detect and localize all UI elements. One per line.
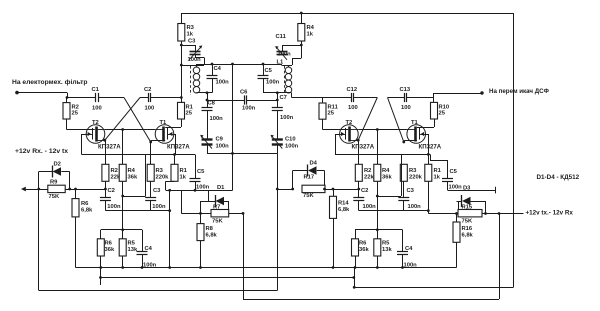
- svg-text:75K: 75K: [303, 193, 314, 199]
- wire: R17 right to bias node: [325, 189, 359, 191]
- wire: T1r gate lead down: [426, 134, 429, 154]
- label R6 36k (right): [359, 241, 369, 254]
- wire: bias cap bottom bus: [105, 210, 169, 212]
- wire: jog down to R7 wire: [181, 190, 183, 213]
- wire: gate bus y=154.5: [82, 154, 196, 156]
- label C13 100: [401, 105, 411, 111]
- node: tap to D4/R17: [276, 188, 279, 191]
- svg-text:36k: 36k: [382, 175, 392, 181]
- label C2 100n (right): [363, 204, 377, 210]
- label R16 6,8k: [462, 226, 474, 239]
- label C5 100n (right): [449, 185, 463, 191]
- capacitor C4 (right bias): [397, 230, 408, 268]
- svg-text:C7: C7: [280, 95, 287, 101]
- svg-text:R5: R5: [382, 241, 390, 247]
- label D4: [310, 161, 318, 167]
- label R4 36k: [128, 168, 138, 181]
- svg-text:R3: R3: [156, 168, 164, 174]
- svg-text:D4: D4: [310, 161, 318, 167]
- wire: C5 right feed: [430, 154, 448, 178]
- svg-text:На перем икач ДСФ: На перем икач ДСФ: [489, 88, 550, 95]
- transistor T2 (КП327А): [86, 125, 105, 144]
- wire: left osc rail segment A: [67, 97, 96, 99]
- capacitor C7: [272, 93, 283, 139]
- wire: right osc rail segment D: [407, 97, 434, 99]
- svg-text:C8: C8: [208, 101, 216, 107]
- node: gate2 tap: [121, 195, 124, 198]
- label R7: [213, 205, 220, 211]
- label C12: [347, 87, 358, 93]
- wire: top supply rail: [181, 13, 513, 15]
- resistor R2 (25): [63, 98, 70, 120]
- svg-text:100n: 100n: [216, 80, 230, 86]
- svg-text:L1: L1: [277, 60, 285, 66]
- wire: right osc rail segment C: [388, 97, 405, 99]
- svg-text:100n: 100n: [266, 80, 280, 86]
- wire: R4-36k right lead up: [377, 130, 379, 165]
- svg-text:C4: C4: [405, 246, 413, 252]
- svg-text:C5: C5: [450, 169, 458, 175]
- wire: L1 bottom to right oscillator rail: [289, 93, 323, 98]
- node: C5 top: [262, 63, 265, 66]
- svg-text:D2: D2: [54, 162, 61, 168]
- svg-text:C1: C1: [92, 87, 100, 93]
- diode D2: [39, 166, 70, 190]
- wire: D1 feed stub: [208, 190, 210, 201]
- node: stub corner: [353, 286, 356, 289]
- svg-text:22k: 22k: [364, 175, 374, 181]
- svg-text:6,8k: 6,8k: [206, 233, 218, 239]
- label R7 75K: [212, 219, 223, 225]
- wire: R2-22k/T2 lead: [105, 164, 107, 166]
- svg-text:R4: R4: [128, 168, 136, 174]
- inductor L1: [285, 65, 292, 93]
- resistor R15 (75K): [458, 210, 482, 217]
- node: junction R2-top/C1: [66, 96, 69, 99]
- label На перемикач ДСФ: [489, 88, 550, 95]
- wire: T2 drain to T1 / R4 tap: [105, 129, 155, 131]
- label R8 6,8k: [206, 226, 218, 239]
- svg-text:C2: C2: [361, 188, 368, 194]
- label R15 75K: [462, 219, 473, 225]
- svg-text:100n: 100n: [285, 144, 299, 150]
- wire: left stub below rail: [100, 268, 102, 286]
- node: R6-36k on rail: [99, 266, 102, 269]
- node: R5-13k divider tap: [121, 228, 124, 231]
- svg-text:R8: R8: [206, 226, 214, 232]
- label C4 (right): [405, 246, 413, 252]
- svg-text:C6: C6: [240, 90, 248, 96]
- svg-text:C3: C3: [153, 188, 161, 194]
- wire: R7 right wire: [229, 213, 243, 215]
- wire: D3 right connection: [470, 201, 485, 214]
- capacitor C3 (right bias): [398, 198, 409, 211]
- label T1 КП327А (right): [419, 144, 442, 151]
- svg-text:R1: R1: [180, 168, 188, 174]
- label C4: [214, 66, 222, 72]
- svg-text:КП327А: КП327А: [419, 144, 442, 151]
- svg-text:100n: 100n: [210, 116, 224, 122]
- wire: gate2 feed to T1r: [377, 154, 401, 196]
- label C6 100n: [242, 106, 256, 112]
- node: supply terminal left: [21, 187, 26, 192]
- wire: R8 bottom to rail: [200, 241, 202, 268]
- svg-text:R9: R9: [50, 180, 58, 186]
- svg-text:100n: 100n: [152, 204, 166, 210]
- node: C7 column top: [276, 91, 279, 94]
- node: R1r bus join: [427, 209, 430, 212]
- label C2 100: [145, 106, 155, 112]
- wire: divider rail right: [355, 229, 403, 231]
- node: R17 left junction: [291, 188, 294, 191]
- svg-text:C3: C3: [407, 188, 415, 194]
- wire: R5r bottom: [377, 256, 379, 268]
- node: ground-hang vertical top: [168, 189, 171, 192]
- wire: middle vertical (tank rail down to bias wire): [232, 64, 234, 190]
- node: middle vertical / C9-C10 rail: [231, 152, 234, 155]
- capacitor C3 (left bias): [145, 198, 156, 211]
- label R2 22k: [111, 168, 121, 181]
- resistor R11 (25): [319, 98, 326, 120]
- svg-text:R6: R6: [105, 241, 113, 247]
- resistor R14 (6,8k): [330, 189, 337, 218]
- inductor L core (dashed): [190, 66, 192, 95]
- label C8 100n: [210, 116, 224, 122]
- svg-text:1k: 1k: [187, 32, 194, 38]
- label C3 (right): [407, 188, 415, 194]
- svg-text:C5: C5: [265, 68, 273, 74]
- svg-text:C4: C4: [214, 66, 222, 72]
- wire: T1 gate lead down: [174, 134, 176, 155]
- wire: C6 line: [207, 100, 277, 102]
- resistor R2 (22k): [102, 164, 109, 181]
- label R3 1k: [187, 25, 195, 38]
- wire: C9/C10 bottom rail: [207, 153, 277, 155]
- label C8: [208, 101, 216, 107]
- diode D4: [293, 165, 325, 190]
- svg-text:На електормех. фільтр: На електормех. фільтр: [12, 78, 87, 86]
- svg-text:T2: T2: [92, 120, 99, 126]
- label R9: [50, 180, 58, 186]
- svg-text:100n: 100n: [107, 204, 121, 210]
- label C4 (left): [145, 246, 153, 252]
- svg-text:75K: 75K: [49, 194, 60, 200]
- wire: R5-13k bottom: [122, 256, 124, 268]
- wire: R2r bottom to C2: [358, 181, 360, 197]
- svg-text:100: 100: [145, 106, 155, 112]
- wire: ground rail: [76, 267, 457, 269]
- svg-text:100n: 100n: [216, 144, 230, 150]
- node: C8 column top: [206, 91, 209, 94]
- node: D2 right junction: [68, 188, 71, 191]
- node: C3 tap: [180, 44, 183, 47]
- label C4 100n: [216, 80, 230, 86]
- svg-text:КП327А: КП327А: [167, 144, 190, 151]
- capacitor C5 (left bias): [190, 155, 201, 191]
- resistor R10 (25): [431, 93, 438, 119]
- capacitor C6: [245, 95, 247, 104]
- wire: long bias wire y=190.3: [166, 190, 233, 192]
- label C5 (right): [450, 169, 458, 175]
- node: D4 right junction: [323, 188, 326, 191]
- wire: R15 left wire: [428, 213, 458, 215]
- svg-text:C2: C2: [108, 188, 115, 194]
- svg-text:1k: 1k: [434, 175, 441, 181]
- resistor R4 (36k): [119, 164, 126, 181]
- resistor R4 right (36k): [374, 164, 381, 181]
- node: R14 top: [332, 188, 335, 191]
- wire: R7 left wire: [181, 213, 211, 215]
- label C5 100n (left): [196, 185, 210, 191]
- wire: R7 node down to bottom bus: [243, 213, 245, 299]
- node: coil top tap: [180, 64, 183, 67]
- svg-text:1k: 1k: [180, 175, 187, 181]
- label C1 100: [92, 106, 102, 112]
- wire: gate2 feed to T1: [123, 155, 146, 197]
- svg-text:R17: R17: [304, 175, 315, 181]
- resistor R17 (75K): [302, 185, 325, 192]
- wire: bottom bus R7-node to +12v: [243, 299, 499, 301]
- wire: R6-36k bottom: [100, 256, 102, 268]
- svg-text:+12v tx.- 12v Rx: +12v tx.- 12v Rx: [526, 209, 574, 216]
- svg-text:КП327А: КП327А: [352, 144, 375, 151]
- wire: R1r bottom drop: [428, 181, 430, 213]
- label R2 22k (right): [364, 168, 374, 181]
- node: R8 top: [199, 212, 202, 215]
- svg-text:13k: 13k: [382, 247, 392, 253]
- label R11 25: [328, 105, 339, 117]
- svg-text:100n: 100n: [242, 106, 256, 112]
- node: C4 top: [211, 63, 214, 66]
- wire: R14 bottom to rail: [333, 218, 335, 267]
- wire: right stub: [354, 268, 356, 288]
- label C9: [216, 137, 224, 143]
- wire: R4r lower lead to divider: [377, 181, 379, 230]
- svg-text:R3: R3: [409, 168, 417, 174]
- label C7 100n: [280, 115, 294, 121]
- node: T2 source node: [103, 139, 106, 142]
- resistor R9 (75K): [48, 185, 65, 192]
- svg-text:C12: C12: [347, 87, 358, 93]
- wire: divider rail: [101, 229, 142, 231]
- node: C8 top on C6 line: [206, 99, 209, 102]
- wire: T2r drain to T1r / R4 tap: [358, 129, 407, 131]
- label C6: [240, 90, 248, 96]
- wire: cross-coupling diagonal C1->T1: [124, 98, 151, 143]
- svg-text:36k: 36k: [105, 247, 115, 253]
- svg-text:36k: 36k: [359, 247, 369, 253]
- label C5 100n: [266, 80, 280, 86]
- svg-text:220k: 220k: [156, 175, 170, 181]
- label D3: [463, 185, 471, 191]
- wire: hanging vertical to ground rail: [169, 190, 171, 267]
- wire: R9 right to bias node: [65, 189, 105, 191]
- svg-text:6,8k: 6,8k: [462, 233, 474, 239]
- label C12 100: [348, 105, 358, 111]
- resistor R7 (75K): [211, 210, 229, 217]
- wire: left osc rail segment B: [98, 97, 124, 99]
- svg-text:C3: C3: [188, 39, 196, 45]
- capacitor C4 (left bias): [137, 230, 148, 268]
- label C3 100n: [188, 57, 202, 63]
- svg-text:R16: R16: [462, 226, 473, 232]
- label R17: [304, 175, 315, 181]
- label: На електормех. фільтр: [12, 78, 87, 86]
- wire: left osc rail segment C: [140, 97, 148, 99]
- svg-text:36k: 36k: [128, 175, 138, 181]
- capacitor C12: [352, 93, 354, 102]
- label R3 220k (right): [409, 168, 423, 181]
- label R9 75K: [49, 194, 60, 200]
- wire: +12v vertical drop: [499, 214, 501, 300]
- capacitor C1: [96, 93, 99, 102]
- svg-text:25: 25: [186, 111, 193, 117]
- node: R4 top tap on rail: [300, 12, 303, 15]
- label R3 220k: [156, 168, 170, 181]
- label T1: [160, 120, 168, 126]
- wire: right edge vertical (top rail down to bottom): [513, 13, 515, 287]
- svg-text:R2: R2: [364, 168, 371, 174]
- svg-text:C2: C2: [144, 87, 151, 93]
- node: R8 on rail: [199, 266, 202, 269]
- wire: R10 to T1r drain: [417, 119, 435, 128]
- svg-text:R7: R7: [213, 205, 220, 211]
- label T2: [92, 120, 99, 126]
- wire: coil bottom to C8 node: [197, 92, 213, 94]
- svg-text:C10: C10: [285, 137, 296, 143]
- wire: D1 cathode-side wire: [201, 201, 216, 213]
- wire: right osc rail segment B: [354, 97, 377, 99]
- label C3: [188, 39, 196, 45]
- svg-text:R14: R14: [338, 201, 349, 207]
- svg-text:100n: 100n: [278, 52, 292, 58]
- node: rail/R3/R1 junction: [180, 96, 183, 99]
- svg-text:R3: R3: [187, 25, 195, 31]
- svg-text:25: 25: [439, 111, 446, 117]
- node: hang on ground rail: [168, 266, 171, 269]
- node: C11 tap: [300, 44, 303, 47]
- wire: cross-coupling diagonal C2->T2: [105, 98, 140, 141]
- node: T1r source node: [402, 141, 405, 144]
- capacitor C5 (middle): [258, 64, 269, 93]
- wire: R3-220k bottom to C3: [150, 181, 152, 197]
- label D2: [54, 162, 61, 168]
- label R1 1k: [180, 168, 188, 181]
- node: output terminal: [480, 91, 483, 94]
- node: D3 right junction: [484, 212, 487, 215]
- capacitor C11 (trimmer): [275, 46, 287, 60]
- label R4 1k: [307, 25, 315, 38]
- wire: bottom bus to right edge vertical: [354, 287, 513, 289]
- node: R16 top: [455, 212, 458, 215]
- node: T1 source node: [149, 141, 152, 144]
- label R4 36k (right): [382, 168, 392, 181]
- svg-text:D1: D1: [217, 185, 225, 191]
- svg-text:25: 25: [72, 111, 79, 117]
- label D1: [217, 185, 225, 191]
- label R1 1k (right): [434, 168, 442, 181]
- node: middle vertical top: [231, 63, 234, 66]
- label C3 (left): [153, 188, 161, 194]
- svg-text:R2: R2: [111, 168, 118, 174]
- resistor R6 right (36k): [352, 230, 359, 256]
- svg-text:+12v Rx. - 12v tx: +12v Rx. - 12v tx: [15, 148, 68, 155]
- node: C7 top on C6 line: [276, 99, 279, 102]
- label R5 13k (right): [382, 241, 392, 254]
- node: tap to R4-36k: [121, 128, 124, 131]
- svg-text:T1: T1: [411, 120, 419, 126]
- wire: R1-1k bottom jog: [166, 181, 175, 190]
- wire: output to ДСФ switch: [434, 93, 482, 95]
- node: R1-1k right top: [427, 153, 430, 156]
- svg-text:100n: 100n: [363, 204, 377, 210]
- svg-text:100n: 100n: [196, 185, 210, 191]
- svg-text:T2: T2: [346, 120, 353, 126]
- diode D3: [462, 195, 471, 207]
- node: R1-1k top: [173, 153, 176, 156]
- svg-text:T1: T1: [160, 120, 168, 126]
- svg-text:D1-D4 - КД512: D1-D4 - КД512: [537, 174, 580, 181]
- resistor R3 right (220k): [400, 164, 407, 181]
- resistor R1 (25): [178, 98, 185, 120]
- svg-text:100: 100: [348, 105, 358, 111]
- resistor R5 (13k): [119, 230, 126, 256]
- svg-text:R1: R1: [434, 168, 442, 174]
- svg-text:R4: R4: [307, 25, 315, 31]
- node: R2r / bias wire: [357, 188, 360, 191]
- svg-text:6,8k: 6,8k: [338, 207, 350, 213]
- label C1: [92, 87, 100, 93]
- label C2 100n (left): [107, 204, 121, 210]
- capacitor C4 (middle): [207, 64, 218, 93]
- wire: gate bus right y=154.4: [335, 154, 430, 156]
- transistor T1 right (КП327А, mirrored): [407, 125, 426, 144]
- wire: left osc rail segment D: [151, 97, 182, 99]
- node: bus end: [168, 209, 171, 212]
- wire: R3r bottom to C3: [403, 181, 405, 197]
- resistor R5 right (13k): [374, 230, 381, 256]
- node: +12v drop junction: [498, 212, 501, 215]
- label T2 (right): [346, 120, 353, 126]
- wire: R1(25) to T1 drain: [165, 119, 181, 128]
- label C4 100n (right): [404, 263, 418, 269]
- svg-text:220k: 220k: [409, 175, 423, 181]
- capacitor C3 (trimmer): [189, 46, 202, 60]
- label D1-D4 - КД512: [537, 174, 580, 181]
- node: R5-13k on rail: [121, 266, 124, 269]
- svg-text:C5: C5: [197, 169, 205, 175]
- node: T2r source node: [357, 139, 360, 142]
- wire: R3-220k lead up: [150, 142, 152, 164]
- label C10 100n: [285, 144, 299, 150]
- wire: cross-connect y=277.5: [101, 277, 354, 279]
- node: R6r on rail: [354, 266, 357, 269]
- label C5: [265, 68, 273, 74]
- svg-text:75K: 75K: [462, 219, 473, 225]
- label C11 100n: [278, 52, 292, 58]
- wire: C11 top connection: [282, 45, 301, 51]
- wire: R6r bottom: [355, 256, 357, 268]
- resistor R8 (6,8k): [197, 213, 204, 240]
- resistor R4: [298, 13, 305, 41]
- label C13: [400, 87, 411, 93]
- node: R7 right junction: [242, 212, 245, 215]
- node: input terminal (На електромех. фільтр): [15, 91, 19, 95]
- wire: supply loop bottom: [39, 290, 277, 292]
- svg-text:C11: C11: [276, 34, 287, 40]
- node: tap to R4-36k right: [376, 128, 379, 131]
- resistor R6 (6,8k): [72, 189, 79, 217]
